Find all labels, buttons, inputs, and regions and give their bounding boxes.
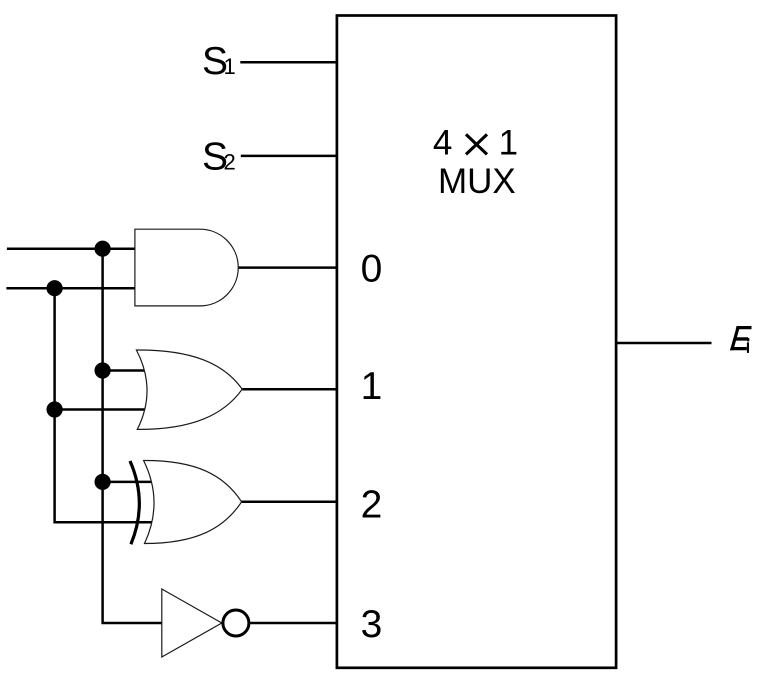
svg-text:MUX: MUX: [438, 162, 516, 201]
svg-text:2: 2: [361, 484, 383, 527]
svg-text:2: 2: [224, 150, 236, 175]
svg-text:1: 1: [499, 124, 518, 163]
svg-text:1: 1: [361, 365, 383, 408]
svg-text:1: 1: [224, 54, 236, 79]
svg-text:4: 4: [433, 124, 452, 163]
svg-text:3: 3: [361, 603, 383, 646]
svg-text:0: 0: [361, 248, 383, 291]
